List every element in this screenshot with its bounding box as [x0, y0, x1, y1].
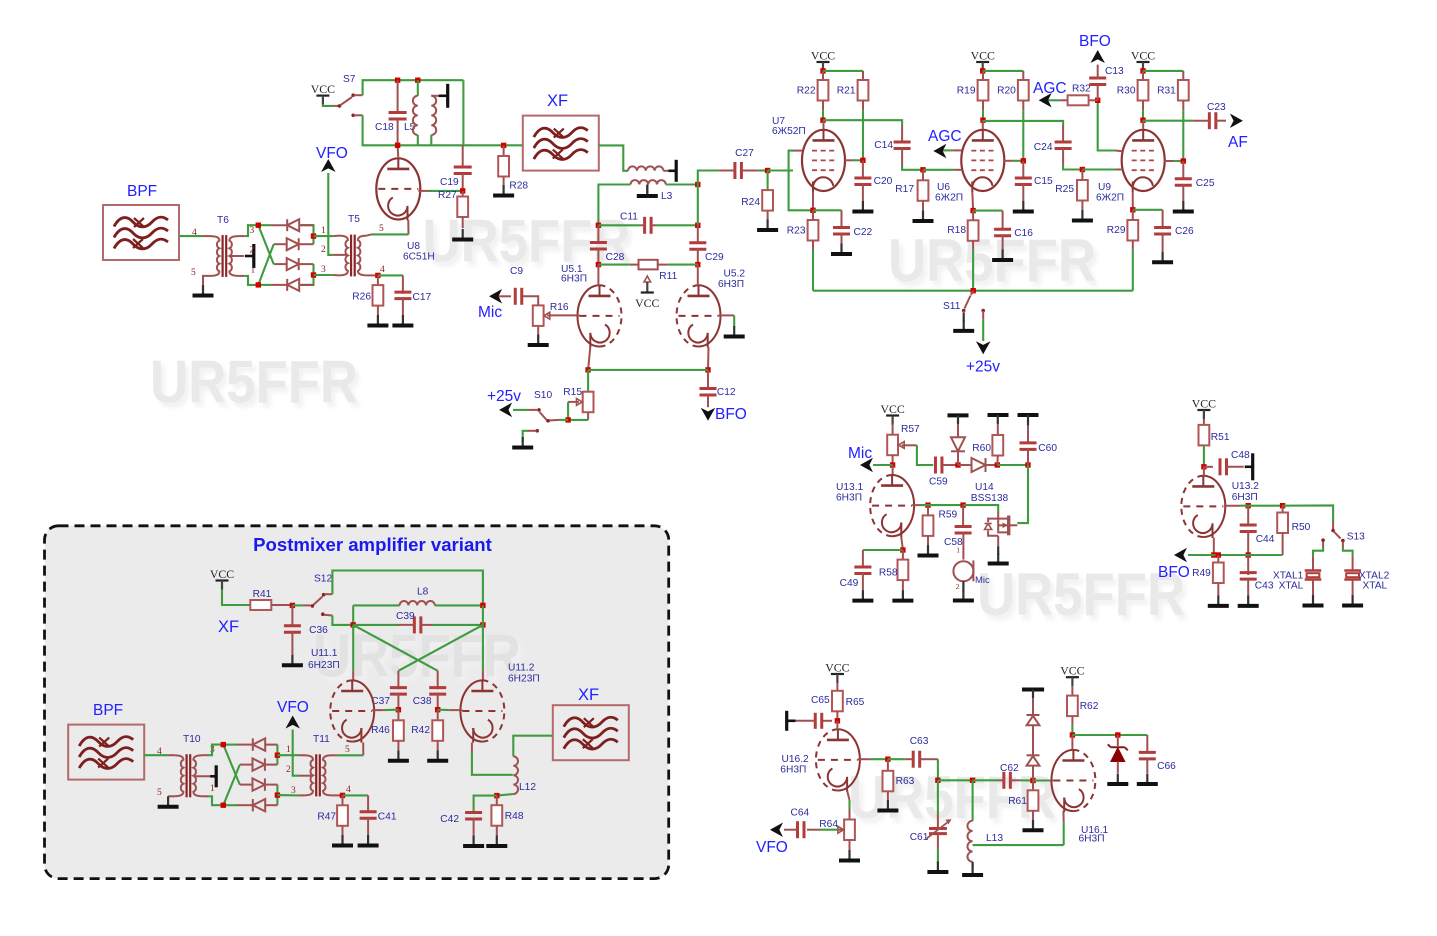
tube U6 ref — [937, 182, 950, 193]
diode D18 — [1027, 755, 1040, 765]
wire to XTAL1 — [1313, 548, 1323, 557]
triode U5.2 — [677, 285, 721, 348]
potentiometer R64 — [819, 819, 855, 840]
junction R50 top — [1280, 503, 1285, 508]
resistor R42 — [411, 720, 443, 741]
label L12 — [519, 782, 536, 793]
wire grid node — [920, 504, 963, 506]
arrow AF output — [1230, 113, 1243, 128]
wire C61 to ground — [937, 849, 939, 863]
R48 top lead — [496, 796, 498, 806]
svg-text:C24: C24 — [1034, 142, 1053, 153]
wire ring top rail right — [301, 225, 314, 244]
svg-text:U14: U14 — [975, 482, 994, 493]
tube U6 type — [935, 193, 963, 204]
ground R60 top — [988, 415, 1009, 424]
svg-text:C39: C39 — [396, 611, 415, 622]
VCC power U16.1 — [1060, 664, 1084, 687]
U7 cathode lead — [812, 192, 814, 211]
wire U11.2 cathode to L12 tap — [472, 752, 513, 775]
transistor U14 type — [971, 493, 1009, 504]
junction C61 top — [935, 778, 940, 783]
transformer T6 ref — [217, 215, 229, 226]
svg-text:2: 2 — [956, 582, 960, 591]
U11.1 anode lead — [352, 671, 354, 681]
wire cathode rail U5 — [588, 369, 708, 371]
C42 bottom lead — [473, 818, 475, 836]
R32 left lead — [1059, 99, 1067, 101]
T10 pin5 lead — [168, 795, 174, 797]
arrow VFO input — [321, 159, 336, 172]
svg-text:4: 4 — [192, 228, 197, 238]
svg-text:6Ж2П: 6Ж2П — [935, 193, 963, 204]
R65 top lead — [836, 683, 838, 691]
junction U9 cathode — [1130, 207, 1135, 212]
U11.2 grid lead — [450, 709, 463, 711]
capacitor C11 — [620, 212, 651, 234]
junction C59/diode — [955, 462, 960, 467]
wire S10 to ground — [523, 431, 528, 442]
U16.1 anode lead — [1071, 735, 1073, 749]
ground R42 — [427, 750, 448, 761]
svg-text:1: 1 — [956, 546, 960, 555]
VCC power R11 — [635, 282, 659, 310]
C15 bottom lead — [1022, 183, 1024, 201]
tube U16.2 ref — [782, 754, 810, 765]
T10 pin4 lead — [168, 754, 174, 756]
svg-text:VCC: VCC — [210, 567, 234, 581]
junction U7 g2 / C20 — [860, 158, 865, 163]
R15 bottom lead — [587, 412, 589, 420]
wire U8 grid to C19 — [429, 190, 463, 192]
U9 g1 stub — [1116, 169, 1123, 171]
svg-text:3: 3 — [321, 265, 326, 275]
label C9 — [510, 266, 523, 277]
wire ring2 to T11 pin1 — [277, 754, 299, 756]
capacitor C17 — [394, 292, 431, 303]
wire to U6 g1 stub — [923, 169, 954, 171]
ground R47 — [332, 835, 353, 846]
U14 source ground lead — [997, 546, 999, 555]
R60 bottom lead — [996, 456, 999, 466]
tube U7 ref — [772, 116, 785, 127]
wire to R15 — [587, 370, 589, 392]
svg-text:AGC: AGC — [928, 128, 962, 145]
ground R25 — [1072, 210, 1093, 221]
svg-text:C63: C63 — [910, 736, 929, 747]
svg-text:C65: C65 — [811, 695, 830, 706]
wire ring2 bottom rail left — [223, 804, 237, 806]
wire C14 to U6 g1 — [902, 166, 923, 170]
svg-text:2: 2 — [250, 246, 255, 256]
ground R16 — [528, 335, 549, 346]
wire cathode to BFO arrow — [1188, 554, 1214, 556]
wire grid node BFO — [1240, 505, 1283, 507]
resistor R59 — [923, 510, 958, 536]
svg-text:C17: C17 — [413, 292, 432, 303]
wire L5 left top — [417, 80, 419, 96]
svg-text:BFO: BFO — [1158, 564, 1190, 581]
R21 bottom lead — [862, 101, 864, 111]
pin 4 — [192, 228, 197, 238]
svg-text:C29: C29 — [705, 252, 724, 263]
U6 anode lead — [982, 120, 984, 129]
ground C15 — [1013, 201, 1034, 212]
resistor R61 — [1008, 790, 1038, 811]
capacitor C22 — [833, 227, 873, 238]
AGC label — [928, 128, 962, 145]
inductor L12 — [513, 756, 518, 794]
wire ring2 top rail left — [223, 744, 237, 746]
R19 bottom lead — [982, 101, 984, 111]
U16.2 cathode lead ext — [847, 791, 849, 801]
capacitor C23 — [1207, 102, 1226, 129]
R62 top lead — [1071, 686, 1073, 695]
BFO label — [715, 406, 747, 423]
U7 anode lead — [823, 120, 825, 129]
svg-text:C27: C27 — [735, 148, 754, 159]
C64 left lead — [784, 829, 798, 831]
arrow BFO output — [1174, 548, 1187, 563]
svg-text:S13: S13 — [1347, 532, 1365, 543]
junction U16.1 anode — [1070, 732, 1075, 737]
svg-text:1: 1 — [251, 266, 256, 276]
VFO label — [316, 145, 348, 162]
junction S11 — [971, 288, 976, 293]
svg-text:VFO: VFO — [316, 145, 348, 162]
C61 top lead — [937, 814, 939, 828]
resistor R62 — [1067, 696, 1099, 717]
ground R58 — [892, 590, 913, 601]
R63 top lead — [887, 759, 889, 771]
svg-text:R30: R30 — [1117, 86, 1136, 97]
C59 right lead — [942, 464, 958, 466]
junction R32/C13 — [1095, 98, 1100, 103]
L13 bottom lead — [971, 862, 973, 866]
capacitor C48 — [1220, 450, 1250, 476]
junction U7 anode — [820, 118, 825, 123]
ground S10 — [512, 437, 533, 448]
VCC power S7 — [311, 82, 335, 105]
C58 top lead — [962, 505, 964, 527]
svg-text:XF: XF — [218, 618, 239, 636]
C27 leads — [719, 170, 758, 172]
svg-text:UR5FFR: UR5FFR — [150, 349, 358, 416]
svg-text:4: 4 — [346, 785, 351, 795]
svg-text:VFO: VFO — [277, 699, 309, 716]
zener top lead — [1117, 735, 1119, 746]
R59 bottom lead — [927, 536, 929, 546]
C12 top lead — [707, 370, 709, 390]
diode chain lead 3 — [1032, 766, 1034, 781]
R22 bottom lead — [822, 101, 824, 111]
C37 bottom lead — [397, 693, 399, 710]
XF filter box 2 — [553, 705, 629, 760]
wire VCC to R41 — [222, 590, 250, 606]
svg-text:BFO: BFO — [1079, 33, 1111, 50]
wire T6 pin3 to ring top — [245, 225, 259, 236]
junction T5 pin4 — [375, 273, 380, 278]
resistor R65 — [832, 691, 865, 712]
capacitor C36 — [284, 625, 328, 636]
wire to S12 — [292, 604, 302, 606]
chassis C65 — [785, 711, 788, 731]
R23 bottom lead — [812, 241, 814, 251]
C20 top lead — [862, 160, 864, 179]
svg-text:VCC: VCC — [1060, 664, 1084, 678]
C29 bottom lead — [697, 248, 699, 265]
wire R15 bottom to node — [568, 419, 588, 421]
D15 top lead — [957, 424, 959, 437]
R16 wiper lead — [547, 314, 553, 316]
wire U6 g2 — [1013, 160, 1023, 162]
U9 g3 stub — [1116, 150, 1123, 153]
switch S11 ref — [943, 301, 961, 312]
C25 bottom lead — [1182, 184, 1184, 201]
wire ring bottom rail left — [258, 284, 271, 286]
ground C61 — [927, 862, 948, 873]
variable capacitor C61 — [910, 819, 952, 843]
junction U9 anode — [1140, 118, 1145, 123]
arrow BFO input C13 — [1090, 50, 1105, 63]
R32 right lead — [1089, 99, 1098, 101]
junction ring1 top-left — [256, 223, 261, 228]
L5 right top lead — [431, 95, 438, 97]
R18 bottom lead — [972, 241, 974, 250]
wire C27 to U7 grid — [758, 169, 768, 171]
wire L5 right bottom — [430, 135, 432, 145]
pin 2 — [321, 245, 326, 255]
C14 top lead — [901, 125, 903, 143]
R30 bottom lead — [1142, 101, 1144, 111]
svg-text:R47: R47 — [317, 812, 336, 823]
resistor R22 — [797, 80, 829, 101]
svg-text:UR5FFR: UR5FFR — [977, 561, 1185, 628]
R47 top lead — [342, 795, 344, 805]
wire to U14 gate — [963, 505, 998, 512]
ground R27 — [452, 229, 473, 240]
R58 top lead — [902, 550, 904, 560]
wire ring to T5 pin1 — [314, 235, 334, 237]
Mic label — [478, 304, 502, 321]
pin 2 — [250, 246, 255, 256]
R26 bottom lead — [377, 306, 379, 315]
resistor R46 — [371, 720, 404, 741]
tube U5.2 type — [718, 279, 744, 290]
svg-text:R32: R32 — [1072, 84, 1091, 95]
resistor R23 — [787, 220, 819, 241]
capacitor C14 — [874, 140, 910, 151]
C41 bottom lead — [367, 817, 369, 835]
triode U16.2 — [816, 729, 860, 792]
C36 top lead — [291, 605, 293, 626]
junction U6 cathode — [970, 208, 975, 213]
svg-text:S7: S7 — [343, 74, 356, 85]
wire L3 to C11 left — [598, 185, 630, 226]
svg-text:6Н23П: 6Н23П — [508, 674, 540, 685]
U5.2 cathode lead — [707, 347, 710, 370]
diode ring1 third leads — [274, 263, 314, 265]
switch S7 — [334, 93, 363, 117]
capacitor C43 — [1240, 573, 1274, 592]
R64 top lead — [849, 809, 851, 820]
microphone jack — [953, 546, 990, 592]
switch S13 — [1321, 522, 1344, 548]
svg-text:R31: R31 — [1157, 86, 1176, 97]
junction ring2 right-top — [275, 753, 280, 758]
R58 bottom lead — [902, 580, 904, 590]
wire ring2 bottom rail right — [276, 785, 278, 806]
wire U11.2 anode drop — [482, 625, 484, 671]
watermark — [848, 764, 1060, 836]
R15 wiper lead — [568, 401, 579, 403]
wire grid to R63 — [870, 758, 888, 760]
tube U9 ref — [1098, 182, 1111, 193]
wire L13 tap to U16.1 cathode — [973, 844, 1064, 846]
C26 top lead — [1162, 210, 1164, 229]
R30 top lead — [1142, 71, 1144, 80]
wire L13 top lead — [972, 780, 974, 821]
capacitor C19 — [454, 167, 472, 174]
T11 pin1 lead — [299, 754, 304, 756]
watermark — [150, 349, 362, 421]
transistor U14 BSS138 — [985, 512, 1018, 546]
wire anode rail to C66 — [1072, 734, 1147, 736]
svg-text:6Н3П: 6Н3П — [780, 765, 806, 776]
svg-text:R29: R29 — [1107, 225, 1126, 236]
R61 bottom lead — [1032, 811, 1034, 820]
svg-text:UR5FFR: UR5FFR — [313, 623, 521, 690]
capacitor C9 — [515, 288, 522, 305]
svg-text:R58: R58 — [879, 568, 898, 579]
junction ring1 right-bottom — [311, 272, 316, 277]
svg-text:R60: R60 — [972, 443, 991, 454]
wire to Mic arrow — [873, 464, 893, 466]
C48 right lead — [1226, 466, 1244, 468]
wire R15 wiper down — [567, 402, 569, 420]
wire tank right side — [462, 80, 464, 145]
svg-text:XTAL: XTAL — [1363, 581, 1388, 592]
diode D ring2 third — [253, 778, 265, 790]
potentiometer R11 — [639, 260, 678, 282]
U5.1 anode lead — [597, 265, 599, 286]
svg-text:R16: R16 — [550, 302, 569, 313]
wire cathode node to R50 — [1214, 554, 1283, 556]
pentode U6 6Ж2П — [961, 129, 1004, 192]
capacitor C42 — [440, 813, 482, 825]
pin 5 — [191, 268, 196, 278]
wire to R11 left — [598, 264, 629, 266]
wire anode node right — [482, 605, 484, 625]
svg-text:C20: C20 — [874, 176, 893, 187]
wire L3 node down — [697, 185, 699, 226]
svg-text:C44: C44 — [1256, 534, 1275, 545]
svg-text:BPF: BPF — [93, 702, 123, 719]
svg-text:C41: C41 — [378, 812, 397, 823]
R65 bottom lead — [836, 711, 838, 721]
capacitor C13 — [1089, 66, 1124, 84]
R20 top lead — [1022, 71, 1024, 80]
resistor R27 — [438, 190, 468, 217]
C44 top lead — [1247, 506, 1249, 526]
transformer T6 — [210, 235, 238, 277]
svg-text:C36: C36 — [309, 625, 328, 636]
svg-text:VCC: VCC — [880, 402, 904, 416]
C22 top lead — [841, 210, 843, 228]
arrow VFO input 2 — [285, 716, 300, 729]
junction U5.1 cathode — [585, 367, 590, 372]
AF label — [1228, 134, 1248, 151]
junction R17 top — [920, 167, 925, 172]
svg-text:C58: C58 — [944, 537, 963, 548]
tube U5.2 ref — [724, 269, 746, 280]
transformer T11 ref — [313, 734, 330, 745]
XF label — [578, 686, 599, 704]
svg-text:C15: C15 — [1034, 176, 1053, 187]
C29 top lead — [697, 225, 699, 244]
triode U11.1 — [330, 680, 374, 743]
wire R19 to anode — [982, 110, 984, 120]
chassis T10 center tap — [210, 765, 216, 787]
wire R20 to screen — [1022, 110, 1024, 160]
R27 top lead — [462, 191, 464, 197]
tube U5.1 ref — [561, 264, 583, 275]
U13.1 grid lead — [912, 504, 920, 506]
arrow +25v S11 — [976, 341, 991, 354]
R46 top lead — [397, 710, 399, 721]
wire vcc stub — [1142, 70, 1144, 72]
ground R24 — [757, 220, 778, 231]
U6 g2 stub — [1004, 160, 1013, 162]
tube U8 type — [403, 252, 435, 263]
U5.1 grid lead — [553, 314, 580, 316]
tube U5.1 type — [561, 274, 587, 285]
wire U6 anode to C24 — [983, 121, 1063, 125]
svg-text:T5: T5 — [348, 214, 360, 225]
VFO label — [277, 699, 309, 716]
junction U9 g2 / C25 — [1181, 158, 1186, 163]
R59 top lead — [927, 505, 929, 515]
T11 pin2 lead — [299, 775, 313, 777]
D16 right lead — [986, 464, 998, 466]
BFO label — [1079, 33, 1111, 50]
wire R23 to bus — [812, 250, 814, 291]
wire U11.2 grid — [438, 709, 450, 711]
svg-text:S11: S11 — [943, 301, 961, 312]
R50 bottom lead — [1282, 533, 1284, 555]
ground R61 — [1023, 820, 1044, 831]
C18 bottom lead — [397, 118, 399, 145]
junction C18 bottom / U8 anode — [395, 143, 400, 148]
R26 top lead — [377, 275, 379, 285]
R22 top lead — [822, 71, 824, 80]
svg-text:Mic: Mic — [478, 304, 502, 321]
U13.1 anode lead — [892, 465, 894, 475]
svg-text:U11.2: U11.2 — [508, 663, 535, 674]
R57 top lead — [892, 425, 894, 435]
C65 left lead — [796, 720, 816, 722]
svg-text:C25: C25 — [1196, 178, 1215, 189]
crystal XTAL1 — [1273, 556, 1321, 595]
+25v label — [966, 358, 1000, 375]
wire C39 left — [353, 624, 398, 626]
resistor R41 — [250, 589, 271, 610]
wire BPF2 to T10 — [143, 754, 168, 756]
tube U8 ref — [407, 241, 420, 252]
junction ring2 right-bottom — [275, 792, 280, 797]
BPF label — [127, 183, 157, 200]
U8 grid lead — [418, 190, 429, 192]
